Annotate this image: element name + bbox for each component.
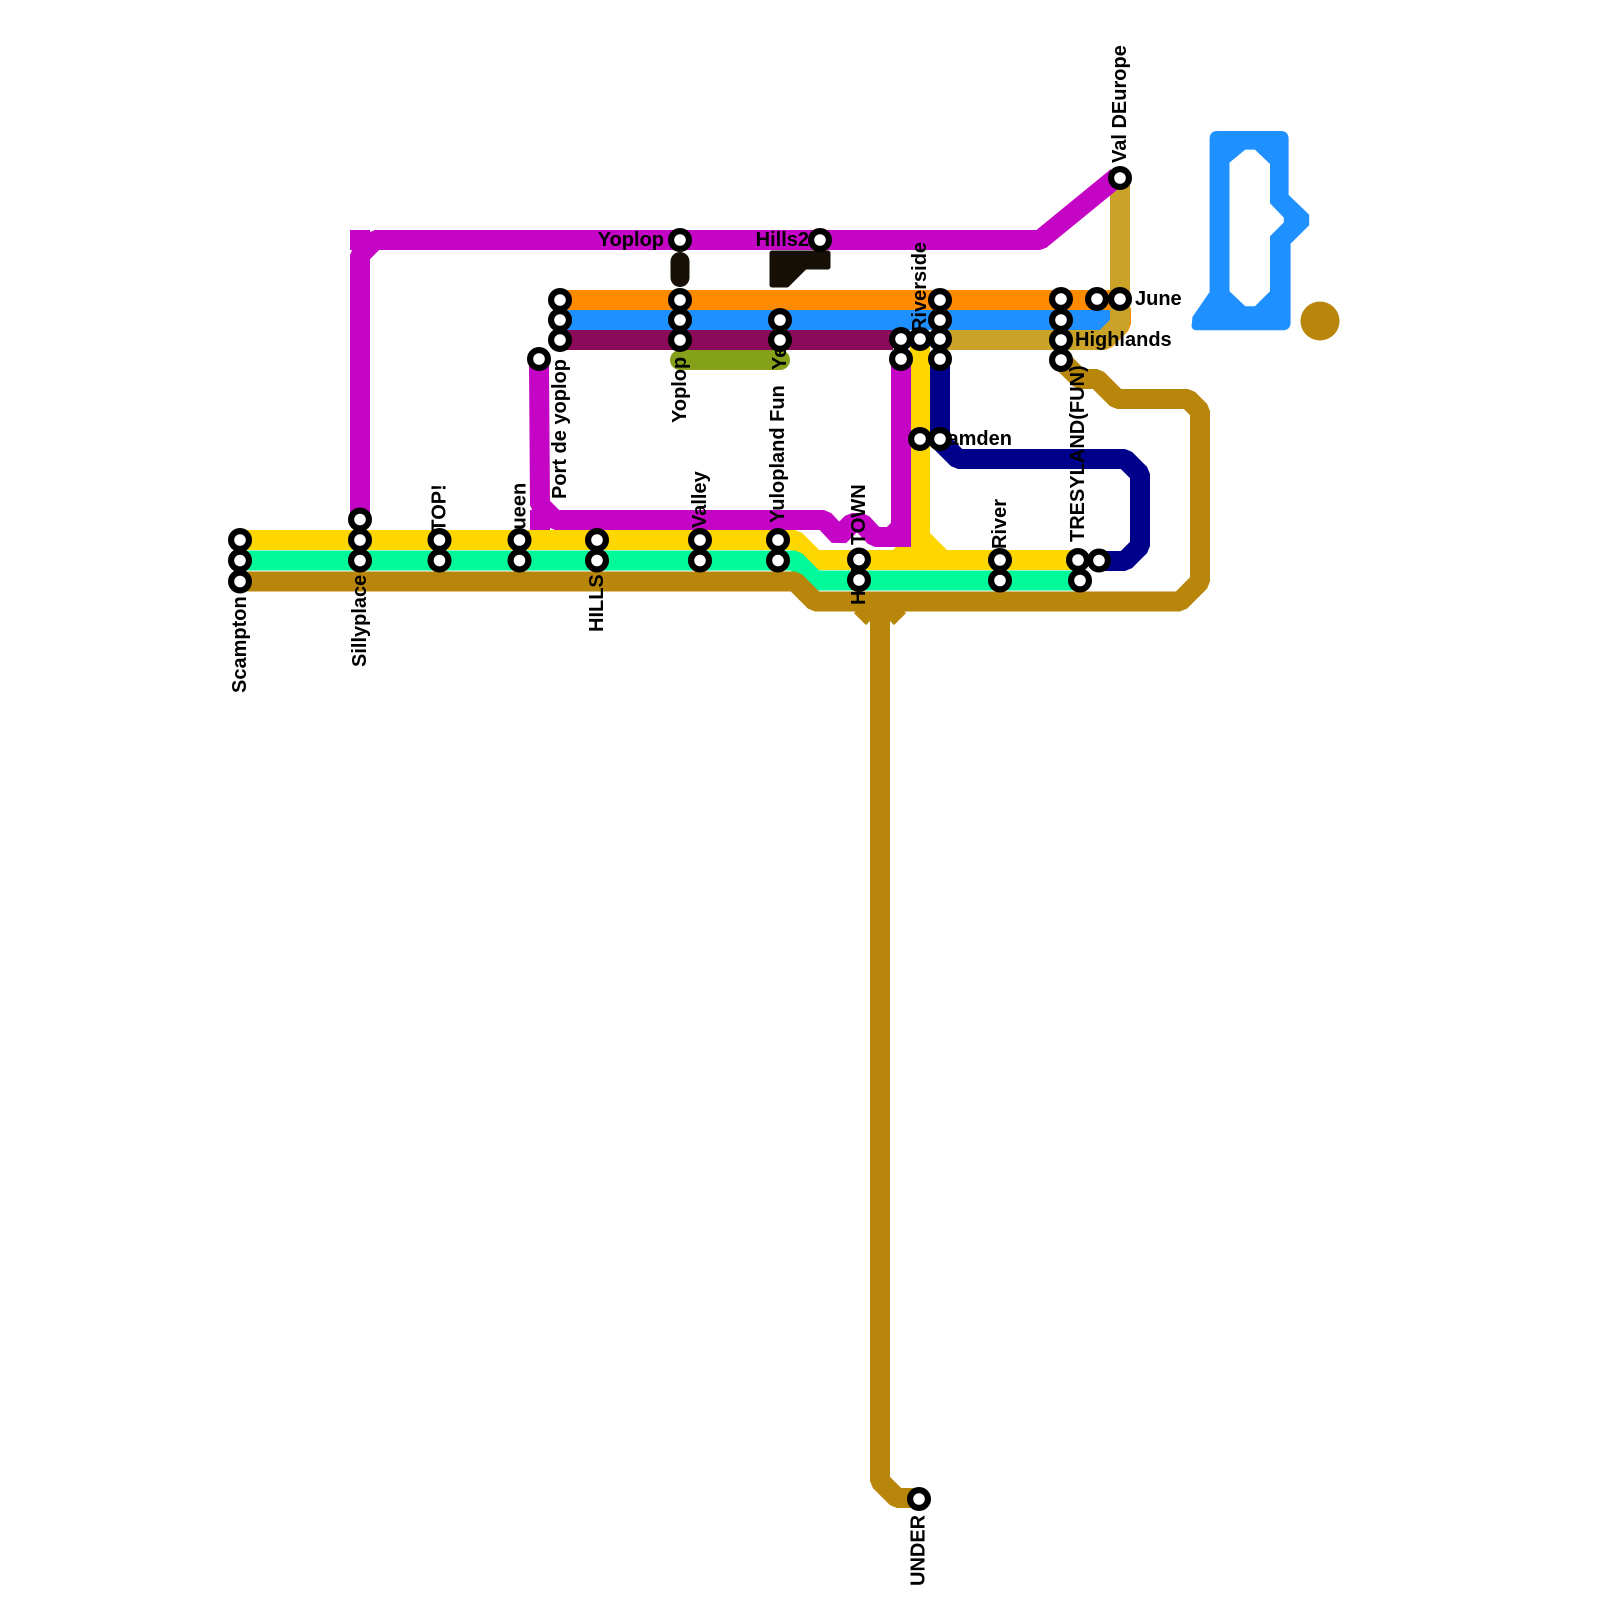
svg-text:TRESYLAND(FUN): TRESYLAND(FUN) [1067,365,1089,542]
yellow line Scampton to TRESYLAND(FUN) [243,540,1080,560]
olive line Yoplop to Yes [680,350,780,370]
station Yes maroon [771,331,789,349]
svg-text:Yoplop: Yoplop [669,357,691,423]
station STOP! green [431,552,449,570]
station Port de yoplop magenta-branch terminus [530,350,548,368]
yellow junction fillet left [893,533,910,550]
svg-text:Valley: Valley [689,470,711,528]
interchange connector Hills2 [772,253,828,285]
interchange connector Yoplop [671,262,690,278]
orange line Port de yoplop to June [557,290,1100,310]
station Riverside yellow top [911,330,929,348]
station Port de yoplop orange [551,291,569,309]
svg-text:HILLS: HILLS [586,574,608,632]
station River green [991,572,1009,590]
brown junction fillet left [861,606,873,618]
station Port de yoplop blue [551,311,569,329]
yellow branch Riverside to junction [910,345,930,558]
station HYPE TOWN yellow [850,551,868,569]
station Yoplop orange [671,291,689,309]
svg-text:June: June [1135,288,1182,310]
mustard line Val DEurope to Riverside [937,180,1120,340]
station River yellow [991,551,1009,569]
station Port de yoplop maroon [551,331,569,349]
station Hills2 magenta [811,231,829,249]
station Riverside mustard [931,330,949,348]
station Riverside navy top [931,350,949,368]
station Sillyplace yellow [351,531,369,549]
station Riverside maroon end [892,330,910,348]
brown line Scampton to Highlands loop [243,363,1200,602]
magenta branch Port de yoplop - HYPE TOWN - Riverside [539,362,901,537]
station June mustard [1111,290,1129,308]
station TRESYLAND(FUN) navy terminus [1090,552,1108,570]
station Queen yellow [511,531,529,549]
magenta corner patch top-left [350,230,370,250]
svg-text:Yoplop: Yoplop [598,229,664,251]
magenta corner patch Port de yoplop [530,510,550,530]
station UNDER brown terminus [910,1490,928,1508]
station June orange [1088,290,1106,308]
station Riverside magenta-branch top [892,350,910,368]
station Yulopland Fun yellow [769,531,787,549]
station Scampton green [231,552,249,570]
magenta line Sillyplace to Val DEurope [360,177,1117,514]
station TRESYLAND(FUN) yellow [1069,551,1087,569]
svg-text:Port de yoplop: Port de yoplop [549,359,571,499]
station Sillyplace green [351,552,369,570]
yellow junction fillet right [930,533,947,550]
station Valley yellow [691,531,709,549]
station Valley green [691,552,709,570]
station Yoplop blue [671,311,689,329]
navy line Riverside - Camden - TRESYLAND(FUN) [940,365,1140,561]
station Scampton yellow [231,531,249,549]
station Camden navy [931,430,949,448]
svg-text:Scampton: Scampton [229,596,251,693]
station Yoplop magenta [671,231,689,249]
maroon line Port de yoplop to Riverside [557,330,893,350]
brown dot [1301,302,1340,341]
svg-text:Hills2: Hills2 [756,229,809,251]
station HYPE TOWN green [850,571,868,589]
blue line Port de yoplop to June [557,310,1115,330]
station Yulopland Fun green [769,552,787,570]
orange line hidden bend under mustard at June [1072,300,1121,340]
station Camden yellow [911,430,929,448]
svg-text:Riverside: Riverside [909,242,931,332]
station HILLS yellow [588,531,606,549]
blue logo glyph [1192,131,1310,330]
station Highlands brown [1052,351,1070,369]
brown junction fillet right [887,606,899,618]
station Scampton brown [231,573,249,591]
station Yes blue [771,311,789,329]
green line Scampton to TRESYLAND(FUN) [243,561,1080,581]
station Highlands orange [1052,290,1070,308]
svg-text:River: River [989,499,1011,549]
station Val DEurope terminus [1111,169,1129,187]
station Sillyplace magenta [351,511,369,529]
brown branch to UNDER [880,602,917,1499]
station Yoplop maroon [671,331,689,349]
svg-text:UNDER: UNDER [908,1514,930,1586]
station Queen green [511,552,529,570]
station Highlands blue [1052,311,1070,329]
station STOP! yellow [431,531,449,549]
station Highlands mustard [1052,331,1070,349]
magenta corner patch HYPE TOWN riser [891,527,911,547]
svg-text:Yulopland Fun: Yulopland Fun [767,385,789,523]
station Riverside blue [931,311,949,329]
station TRESYLAND(FUN) green [1071,572,1089,590]
station HILLS green [588,552,606,570]
svg-text:Sillyplace: Sillyplace [349,575,371,667]
svg-text:Val DEurope: Val DEurope [1109,45,1131,163]
station Riverside orange [931,291,949,309]
svg-text:Highlands: Highlands [1075,329,1172,351]
